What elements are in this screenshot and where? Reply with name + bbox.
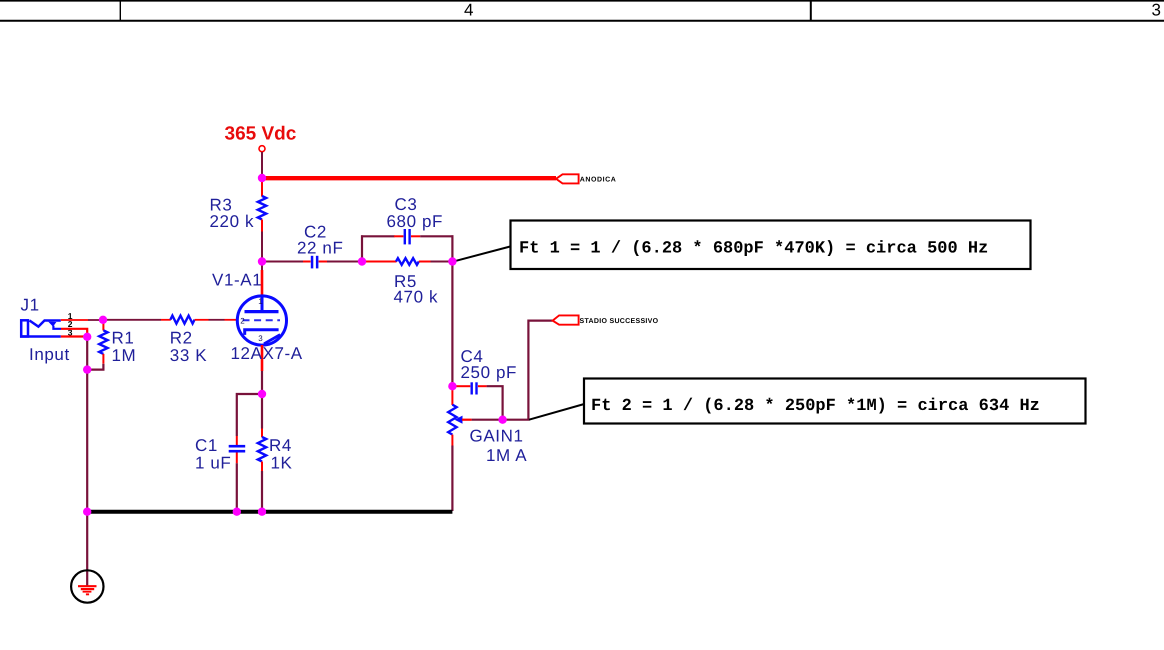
svg-text:ANODICA: ANODICA [580, 176, 617, 183]
jack J1 body bottom line [20, 335, 61, 338]
connector STADIO SUCCESSIVO flag [553, 315, 579, 324]
tube plate riser [261, 296, 264, 311]
junction bus R4 [258, 508, 266, 516]
svg-text:4: 4 [464, 1, 473, 20]
svg-text:250 pF: 250 pF [461, 363, 518, 382]
wire loop right down to C4 junction [451, 262, 453, 387]
resistor R1 zigzag [99, 330, 107, 354]
junction bus left / ground [83, 508, 91, 516]
svg-text:1: 1 [258, 297, 263, 306]
resistor R2 lead left (red) [161, 319, 171, 321]
svg-text:C1: C1 [195, 436, 218, 455]
wire loop top left segment [361, 235, 395, 237]
capacitor C3 lead right (red) [411, 235, 420, 237]
sheet border top line [0, 0, 1164, 2]
ground symbol bars (red) [78, 585, 97, 587]
junction J1 pins 2-3 [83, 333, 91, 341]
junction wiper/C4 bottom [498, 416, 506, 424]
junction bus/R3 [258, 174, 266, 182]
potentiometer GAIN1 lead bottom (red) [451, 435, 453, 446]
svg-text:680 pF: 680 pF [387, 212, 444, 231]
svg-text:220 k: 220 k [210, 212, 255, 231]
potentiometer GAIN1 zigzag [448, 405, 456, 435]
svg-text:22 nF: 22 nF [297, 239, 343, 258]
svg-text:R4: R4 [269, 436, 292, 455]
svg-text:STADIO SUCCESSIVO: STADIO SUCCESSIVO [580, 318, 659, 325]
wire input junction to R2 [103, 319, 161, 321]
capacitor C2 plates [311, 256, 314, 269]
svg-text:1K: 1K [271, 454, 293, 473]
potentiometer GAIN1 wiper arrowhead [455, 416, 463, 424]
wire cathode junction to C1 branch [237, 394, 262, 436]
wire wiper to junction [472, 419, 500, 421]
ground symbol circle [71, 570, 103, 602]
sheet border zone divider right [810, 0, 812, 21]
junction loop left [358, 257, 366, 265]
svg-text:Ft 2 = 1 / (6.28 * 250pF *1M): Ft 2 = 1 / (6.28 * 250pF *1M) = circa 63… [591, 397, 1040, 416]
resistor R1 lead bottom (red) [102, 354, 104, 364]
wire C2 to loop left junction [327, 261, 360, 263]
resistor R3 zigzag [258, 196, 266, 220]
capacitor C2 lead right (red) [319, 261, 327, 263]
resistor R2 lead right (red) [195, 319, 209, 321]
resistor R4 lead top (red) [261, 429, 263, 438]
svg-text:2: 2 [240, 317, 245, 326]
wire output to stadio successivo [503, 321, 553, 420]
capacitor C2 lead left (red) [303, 261, 311, 263]
tube cathode lead bottom (red) [261, 345, 264, 371]
tube plate lead top (red) [261, 270, 264, 296]
svg-text:Ft 1 = 1 / (6.28 * 680pF *470K: Ft 1 = 1 / (6.28 * 680pF *470K) = circa … [519, 240, 988, 259]
svg-text:12AX7-A: 12AX7-A [231, 344, 303, 363]
power terminal circle [259, 146, 265, 152]
jack pin2 lead (red) [61, 329, 87, 335]
svg-text:R2: R2 [170, 329, 193, 348]
resistor R2 zigzag [170, 316, 194, 324]
junction cathode node [258, 390, 266, 398]
resistor R3 lead top (red) [261, 181, 263, 197]
wire cathode to junction [261, 371, 263, 391]
wire loop top right segment [420, 235, 453, 237]
svg-text:1M A: 1M A [486, 446, 527, 465]
wire pins2-3 node down [86, 337, 88, 370]
potentiometer GAIN1 wiper lead (red) [462, 419, 472, 421]
wire C4 to wiper junction [487, 386, 503, 420]
wire junction row to tube plate [261, 264, 263, 271]
capacitor C4 lead left (red) [455, 385, 470, 387]
wire loop right vertical [451, 235, 453, 261]
resistor R5 zigzag [396, 258, 419, 265]
capacitor C3 lead left (red) [394, 235, 403, 237]
wire cathode junction to R4 [261, 394, 263, 429]
junction bus C1 [233, 508, 241, 516]
junction loop right [448, 257, 456, 265]
resistor R5 lead left (red) [366, 261, 397, 263]
capacitor C4 lead right (red) [478, 385, 487, 387]
capacitor C1 lead bottom (red) [236, 453, 238, 464]
wire R2 to tube grid [209, 319, 225, 321]
wire R5 to loop right junction [431, 261, 453, 263]
svg-text:R1: R1 [112, 329, 135, 348]
svg-text:365 Vdc: 365 Vdc [225, 124, 297, 145]
sheet border zone divider left [119, 0, 121, 21]
capacitor C3 plates [404, 229, 406, 244]
tube grid lead (red) [225, 319, 238, 321]
tube plate bar [245, 310, 279, 313]
wire GAIN1 bottom to ground bus [451, 446, 453, 512]
junction C4 top [448, 382, 456, 390]
jack pin1 lead (red) [61, 319, 88, 321]
svg-text:33 K: 33 K [170, 346, 207, 365]
wire R4 to ground bus [261, 471, 263, 511]
svg-text:GAIN1: GAIN1 [470, 427, 524, 446]
ground bus wire (thick black) [87, 510, 452, 514]
svg-text:1 uF: 1 uF [195, 454, 231, 473]
wire R3 to grid row [261, 232, 263, 260]
callout box Ft1 [511, 221, 1031, 270]
wire bus to earth ground [86, 512, 88, 586]
resistor R1 lead top (red) [102, 322, 104, 331]
svg-text:470 k: 470 k [394, 288, 439, 307]
svg-text:3: 3 [258, 334, 263, 343]
jack J1 switch arrowhead [48, 322, 56, 327]
svg-text:1M: 1M [112, 346, 137, 365]
wire terminal to bus junction [261, 152, 263, 176]
wire C1 to ground bus [236, 463, 238, 511]
wire anodica bus (thick red) [262, 176, 556, 180]
svg-text:Input: Input [29, 345, 70, 364]
capacitor C1 lead top (red) [236, 436, 238, 445]
resistor R5 lead right (red) [419, 261, 431, 263]
tube cathode bar [245, 330, 279, 335]
jack pin3 lead (red) [61, 335, 84, 337]
connector ANODICA flag [556, 174, 579, 183]
tube cathode tail diagonal [264, 335, 280, 344]
resistor R4 lead bottom (red) [261, 462, 263, 472]
capacitor C1 plates [229, 445, 246, 448]
resistor R4 zigzag [258, 437, 266, 462]
junction input node [99, 316, 107, 324]
jack J1 body left rectangle [21, 320, 28, 336]
capacitor C4 plates [471, 382, 473, 394]
wire junction to C2 [262, 261, 304, 263]
tube grid dashed line [243, 319, 281, 321]
junction R1/ground branch [83, 365, 91, 373]
callout line Ft2 [529, 404, 586, 420]
tube V1-A1 envelope circle [237, 296, 286, 345]
callout line Ft1 [456, 246, 512, 261]
svg-text:V1-A1: V1-A1 [212, 271, 262, 290]
wire pin1 to junction [88, 319, 101, 321]
svg-text:3: 3 [1152, 1, 1161, 20]
wire R1 bottom to input ground node [87, 364, 103, 370]
sheet border inner horizontal line [0, 20, 1164, 22]
junction R3/C2 row [258, 257, 266, 265]
jack J1 tip contact V [30, 321, 61, 327]
wire loop left vertical [361, 235, 363, 261]
potentiometer GAIN1 lead top (red) [451, 389, 453, 405]
callout box Ft2 [584, 379, 1086, 424]
svg-text:J1: J1 [21, 296, 40, 315]
jack J1 switch arrow tail [53, 326, 61, 329]
wire input node down to bus [86, 370, 88, 512]
resistor R3 lead bottom (red) [261, 220, 263, 232]
